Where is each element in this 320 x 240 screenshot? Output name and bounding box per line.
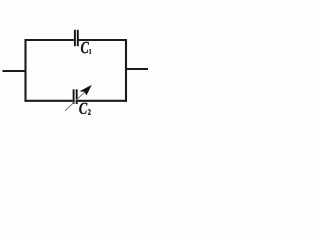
wire left vertical: [24, 39, 26, 102]
capacitor C2 label subscript 2: [88, 109, 91, 114]
wire left lead: [3, 70, 27, 72]
capacitor C1 label subscript 1: [89, 49, 91, 54]
capacitor C1 label C: [81, 42, 89, 53]
wire top right segment: [78, 39, 127, 41]
capacitor C2 plates: [74, 89, 77, 104]
capacitor C2 arrow shaft: [65, 90, 88, 111]
wire top left segment: [25, 39, 74, 41]
wire bottom left segment: [25, 100, 73, 102]
wire right lead: [125, 68, 148, 70]
capacitor C2 arrowhead: [81, 86, 91, 95]
wire bottom right segment: [77, 100, 127, 102]
capacitor C1 plates: [75, 30, 78, 46]
capacitor C2 label C: [79, 103, 87, 114]
wire right vertical: [125, 39, 127, 102]
